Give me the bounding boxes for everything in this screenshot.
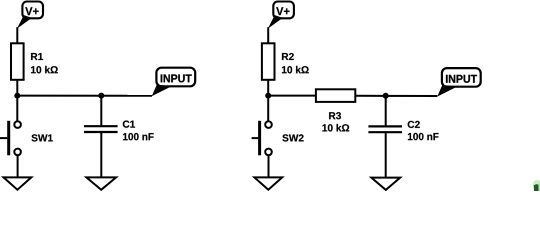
ground under C2 xyxy=(371,178,400,190)
wire C2 to ground xyxy=(385,133,387,177)
label C2 xyxy=(408,121,420,128)
switch SW2 xyxy=(252,121,272,156)
junction node C1 top xyxy=(98,93,104,99)
label 10 kOhm of R3 xyxy=(322,124,349,132)
resistor R2 xyxy=(262,43,275,80)
wire R3 to INPUT flag (right) xyxy=(355,95,437,97)
green watermark fragment bottom-right xyxy=(533,180,540,191)
label 100 nF of C2 xyxy=(408,133,439,140)
wire node to SW2 xyxy=(267,96,269,122)
wire SW1 to ground xyxy=(17,155,19,177)
junction node right rail xyxy=(265,93,271,99)
wire R1 to node xyxy=(16,80,18,96)
ground under SW2 xyxy=(254,177,282,189)
net flag INPUT (right) xyxy=(437,68,480,97)
junction node left rail xyxy=(14,93,20,99)
wire node to C2 xyxy=(385,96,387,126)
label C1 xyxy=(123,121,135,128)
power flag V+ (left) xyxy=(17,2,43,29)
label R1 xyxy=(31,53,43,60)
label SW2 xyxy=(282,134,303,141)
label SW1 xyxy=(31,134,52,141)
switch SW1 xyxy=(0,121,21,156)
ground under SW1 xyxy=(4,177,32,189)
wire V+ to R1 xyxy=(16,27,18,44)
net flag INPUT (left) xyxy=(152,68,196,97)
junction node C2 top xyxy=(383,93,389,99)
ground under C1 xyxy=(86,177,116,189)
capacitor C1 xyxy=(84,126,118,132)
label R2 xyxy=(282,53,294,60)
wire node to INPUT flag (left) xyxy=(17,95,152,97)
wire node to C1 xyxy=(100,96,102,126)
label 10 kOhm of R1 xyxy=(31,66,58,74)
wire R2 to node xyxy=(267,80,269,96)
label 10 kOhm of R2 xyxy=(282,66,309,74)
capacitor C2 xyxy=(368,126,402,132)
wire node to R3 xyxy=(268,95,316,97)
label R3 xyxy=(329,112,341,119)
resistor R1 xyxy=(11,43,24,80)
label 100 nF of C1 xyxy=(123,133,154,140)
resistor R3 xyxy=(316,89,355,102)
wire node to SW1 xyxy=(16,96,18,122)
wire V+ to R2 xyxy=(267,27,269,44)
wire SW2 to ground xyxy=(268,155,270,177)
wire C1 to ground xyxy=(100,133,102,177)
power flag V+ (right) xyxy=(268,2,294,29)
